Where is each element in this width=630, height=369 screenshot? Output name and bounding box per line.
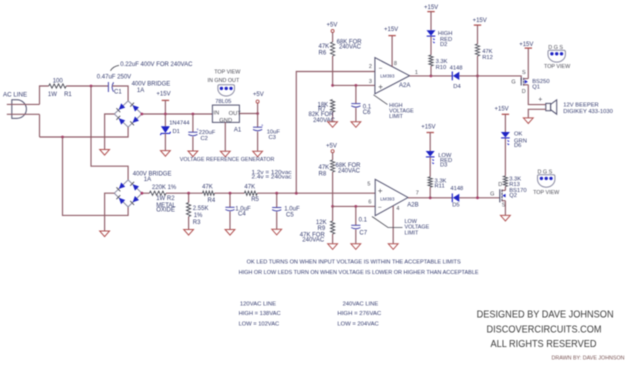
resistor R5 47K xyxy=(244,191,257,195)
svg-text:OK: OK xyxy=(514,132,523,138)
svg-text:IN: IN xyxy=(213,110,219,116)
wire GND pin xyxy=(224,122,226,151)
wire C1 to bridge1 top xyxy=(112,86,128,101)
svg-text:D5: D5 xyxy=(452,203,459,209)
op-amp comparator A2B LM393 xyxy=(375,179,408,215)
diode D5 4148 xyxy=(451,193,453,202)
ground xyxy=(523,118,533,124)
svg-text:D: D xyxy=(522,89,526,95)
svg-text:D3: D3 xyxy=(440,163,447,169)
junction R10 output node xyxy=(430,75,433,78)
transistor Q2 BS170 xyxy=(499,189,501,202)
junction C4 tap xyxy=(229,192,232,195)
capacitor C5 1.0uF xyxy=(276,193,278,207)
diode D4 4148 xyxy=(451,72,453,81)
svg-text:Q1: Q1 xyxy=(532,84,540,90)
svg-text:G: G xyxy=(490,192,494,198)
junction riser tap xyxy=(295,192,298,195)
svg-text:C2: C2 xyxy=(201,136,208,142)
svg-text:HIGH = 138VAC: HIGH = 138VAC xyxy=(239,311,281,317)
wire +unreg rail xyxy=(142,113,213,115)
svg-text:4: 4 xyxy=(396,206,399,212)
junction R3 tap xyxy=(187,192,190,195)
wire sense rail start xyxy=(142,192,150,194)
svg-text:LOW = 102VAC: LOW = 102VAC xyxy=(239,321,280,327)
capacitor C4 1.0uF xyxy=(229,193,231,207)
junction hot node xyxy=(90,85,93,88)
ground xyxy=(388,244,398,250)
leader for 0.22uF note xyxy=(110,65,119,71)
power +15V xyxy=(525,47,532,49)
resistor R2 220K xyxy=(149,191,166,195)
svg-text:400V BRIDGE: 400V BRIDGE xyxy=(133,171,172,177)
wire neutral drop xyxy=(39,114,41,137)
svg-text:4148: 4148 xyxy=(450,65,463,71)
junction neutral/bridge2 return xyxy=(61,136,64,139)
svg-text:D1: D1 xyxy=(173,129,180,135)
svg-text:47K: 47K xyxy=(244,184,255,190)
op-amp comparator A2A LM393 xyxy=(375,58,410,94)
svg-text:HIGH = 276VAC: HIGH = 276VAC xyxy=(337,311,381,317)
svg-text:1A: 1A xyxy=(144,177,151,183)
wire beeper return to ground xyxy=(528,109,546,118)
leader low limit xyxy=(372,217,403,228)
svg-text:220K 1%: 220K 1% xyxy=(152,185,177,191)
resistor R9 12K xyxy=(332,206,334,221)
wire hot riser to top rail xyxy=(40,86,49,104)
svg-text:LM393: LM393 xyxy=(380,74,395,79)
capacitor C3 10uF xyxy=(257,114,259,128)
wire R5 to pin5 xyxy=(257,192,375,194)
svg-text:DRAWN BY: DAVE JOHNSON: DRAWN BY: DAVE JOHNSON xyxy=(552,356,625,362)
BR2 diode bottom-right xyxy=(133,196,139,202)
svg-text:1A: 1A xyxy=(137,88,144,94)
svg-text:240VAC: 240VAC xyxy=(339,45,362,51)
wire ref node B to pin6 xyxy=(333,205,376,207)
svg-text:+: + xyxy=(378,82,383,91)
svg-text:DESIGNED BY DAVE JOHNSON: DESIGNED BY DAVE JOHNSON xyxy=(477,310,614,321)
svg-text:0.47uF 250V: 0.47uF 250V xyxy=(97,75,131,81)
ground xyxy=(100,231,110,237)
wire bridge1 minus to ground xyxy=(105,114,115,150)
junction R12 / Q1 gate node xyxy=(476,75,479,78)
wire bridge2 feed xyxy=(91,86,128,180)
svg-text:6: 6 xyxy=(368,200,371,206)
ground xyxy=(225,230,235,236)
svg-text:D: D xyxy=(498,182,502,188)
svg-text:TOP VIEW: TOP VIEW xyxy=(533,190,560,196)
svg-text:+5V: +5V xyxy=(327,22,338,28)
wire D5 to gate Q2 xyxy=(459,197,500,199)
svg-text:TOP VIEW: TOP VIEW xyxy=(214,70,241,76)
ground xyxy=(100,150,110,156)
svg-text:240VAC LINE: 240VAC LINE xyxy=(343,301,379,307)
svg-text:OK LED TURNS ON WHEN INPUT VOL: OK LED TURNS ON WHEN INPUT VOLTAGE IS WI… xyxy=(247,259,461,265)
BR1 diode top-left xyxy=(119,103,126,109)
svg-text:240VAC: 240VAC xyxy=(338,169,361,175)
ground xyxy=(328,122,338,128)
wire ref node to pin3 xyxy=(333,84,375,86)
ground xyxy=(501,215,511,221)
svg-text:VOLTAGE REFERENCE GENERATOR: VOLTAGE REFERENCE GENERATOR xyxy=(180,157,275,163)
svg-text:R3: R3 xyxy=(193,220,201,226)
svg-text:+5V: +5V xyxy=(326,143,337,149)
junction ref node A xyxy=(331,84,334,87)
svg-text:47K: 47K xyxy=(319,44,330,50)
junction R12 / Q2 gate node xyxy=(476,196,479,199)
svg-text:LOW = 204VAC: LOW = 204VAC xyxy=(337,321,378,327)
svg-text:HIGH OR LOW LEDS TURN ON WHEN: HIGH OR LOW LEDS TURN ON WHEN VOLTAGE IS… xyxy=(239,270,479,276)
bridge rectifier BR1 xyxy=(114,101,142,127)
svg-text:5: 5 xyxy=(367,182,370,188)
svg-text:C5: C5 xyxy=(286,213,294,219)
wire OUT to +5V xyxy=(239,113,257,115)
junction C7 tap xyxy=(354,205,357,208)
capacitor C6 0.1 xyxy=(355,85,357,103)
svg-text:A2B: A2B xyxy=(407,203,418,209)
capacitor C2 220uF xyxy=(192,114,194,132)
svg-text:G: G xyxy=(511,80,515,86)
wire D4 to gate Q1 xyxy=(459,76,521,81)
BR1 diode bottom-right xyxy=(133,117,140,123)
wire Q1 drain to beeper xyxy=(528,85,546,105)
BR2 diode bottom-left xyxy=(119,198,125,204)
transistor Q1 BS250 xyxy=(520,78,522,86)
junction bridge2 plus node xyxy=(141,192,144,195)
leader high limit xyxy=(374,95,388,105)
BR2 diode top-right xyxy=(133,184,139,190)
ground xyxy=(220,151,230,157)
resistor R1 100 xyxy=(49,84,66,88)
svg-text:7: 7 xyxy=(416,191,419,197)
svg-text:120VAC LINE: 120VAC LINE xyxy=(240,301,277,307)
svg-text:0.22uF 400V FOR 240VAC: 0.22uF 400V FOR 240VAC xyxy=(120,62,193,68)
junction +5V node xyxy=(256,112,259,115)
svg-text:R11: R11 xyxy=(435,184,445,190)
wire AC neutral prong xyxy=(7,113,40,115)
svg-text:12K: 12K xyxy=(316,220,327,226)
svg-text:1W R2: 1W R2 xyxy=(156,196,175,202)
svg-text:47K: 47K xyxy=(319,165,330,171)
junction C6 tap xyxy=(355,84,358,87)
resistor R6 47K xyxy=(331,42,335,56)
svg-text:+15V: +15V xyxy=(495,106,509,112)
svg-text:C3: C3 xyxy=(269,135,276,141)
BR1 diode top-right xyxy=(133,105,140,111)
wire pin4 to ground xyxy=(392,206,394,244)
svg-text:A1: A1 xyxy=(234,127,242,133)
resistor R13 3.3K xyxy=(504,187,506,191)
svg-text:+: + xyxy=(378,187,383,196)
AC plug J1 xyxy=(12,100,27,119)
svg-text:A2A: A2A xyxy=(399,83,410,89)
svg-text:C1: C1 xyxy=(114,90,122,96)
svg-text:LIMIT: LIMIT xyxy=(389,114,403,120)
svg-text:78L05: 78L05 xyxy=(215,99,231,105)
svg-text:+15V: +15V xyxy=(156,92,170,98)
svg-text:2.4v = 240vac: 2.4v = 240vac xyxy=(252,174,292,180)
capacitor C7 0.1 xyxy=(355,206,357,225)
svg-text:−: − xyxy=(379,65,383,72)
svg-text:1N4744: 1N4744 xyxy=(169,120,190,126)
svg-text:2.55K: 2.55K xyxy=(193,206,209,212)
ground xyxy=(161,151,171,157)
svg-text:C6: C6 xyxy=(363,110,371,116)
bridge rectifier BR2 xyxy=(114,180,142,207)
ground xyxy=(328,244,338,250)
junction D1 tap xyxy=(164,113,167,116)
svg-text:R12: R12 xyxy=(482,55,493,61)
ground xyxy=(351,122,361,128)
resistor R4 47K xyxy=(203,191,215,195)
resistor R7 18K xyxy=(331,100,335,113)
svg-text:D6: D6 xyxy=(514,143,521,149)
svg-text:LIMIT: LIMIT xyxy=(405,231,419,237)
svg-text:C7: C7 xyxy=(359,231,367,237)
svg-text:−: − xyxy=(378,204,382,211)
svg-text:OXIDE: OXIDE xyxy=(156,208,175,214)
ground xyxy=(184,230,194,236)
svg-text:47K: 47K xyxy=(202,184,213,190)
svg-text:TOP VIEW: TOP VIEW xyxy=(544,64,571,70)
svg-text:1.0uF: 1.0uF xyxy=(284,207,300,213)
ground xyxy=(272,229,282,235)
svg-text:AC LINE: AC LINE xyxy=(3,92,27,99)
BR1 diode bottom-left xyxy=(119,118,126,124)
svg-text:+: + xyxy=(538,97,542,104)
svg-text:0.1: 0.1 xyxy=(359,218,368,224)
wire AC hot prong xyxy=(7,103,40,105)
svg-text:2: 2 xyxy=(369,64,372,70)
resistor R10 3.3K xyxy=(430,36,432,55)
svg-text:+5V: +5V xyxy=(253,92,264,98)
svg-text:OUT: OUT xyxy=(229,111,242,117)
svg-text:1: 1 xyxy=(415,70,418,76)
svg-text:240VAC: 240VAC xyxy=(302,237,325,243)
svg-text:+15V: +15V xyxy=(519,42,533,48)
junction C2 tap xyxy=(192,113,195,116)
resistor R11 3.3K xyxy=(429,157,431,177)
junction bridge1 plus node xyxy=(141,113,144,116)
junction ref node B xyxy=(331,205,334,208)
resistor R8 47K xyxy=(331,160,335,172)
power +15V xyxy=(388,35,395,37)
ground xyxy=(188,151,198,157)
resistor R3 2.55K xyxy=(188,193,190,202)
svg-text:R13: R13 xyxy=(509,182,520,188)
wire A2A output xyxy=(410,75,453,77)
svg-text:IN GND OUT: IN GND OUT xyxy=(208,78,240,84)
svg-text:ALL RIGHTS RESERVED: ALL RIGHTS RESERVED xyxy=(491,339,597,350)
svg-text:100: 100 xyxy=(53,78,64,84)
svg-text:S: S xyxy=(522,70,526,76)
regulator A1 78L05 xyxy=(212,105,239,122)
svg-text:R6: R6 xyxy=(319,50,327,56)
wire pin8 to +15V xyxy=(391,36,393,67)
svg-text:C4: C4 xyxy=(238,212,246,218)
svg-text:DISCOVERCIRCUITS.COM: DISCOVERCIRCUITS.COM xyxy=(487,325,602,336)
ground xyxy=(253,151,263,157)
svg-text:1W: 1W xyxy=(48,92,57,98)
svg-text:R4: R4 xyxy=(208,198,216,204)
wire Q2 source to ground xyxy=(504,201,506,216)
BR2 diode top-left xyxy=(119,183,125,189)
svg-text:+15V: +15V xyxy=(384,27,398,33)
junction C5 tap xyxy=(275,192,278,195)
zener D1 1N4744 xyxy=(164,114,166,126)
svg-text:R8: R8 xyxy=(319,172,327,178)
svg-text:3: 3 xyxy=(369,79,372,85)
wire A2B output xyxy=(408,197,452,199)
wire neutral bottom rail xyxy=(40,127,129,137)
svg-text:4148: 4148 xyxy=(450,186,463,192)
wire R2-R4 xyxy=(166,192,203,194)
svg-text:D4: D4 xyxy=(453,84,461,90)
wire riser to pin2 xyxy=(296,72,375,194)
svg-text:+15V: +15V xyxy=(421,125,435,131)
svg-text:LM393: LM393 xyxy=(380,196,395,201)
wire R1 to C1 xyxy=(66,85,108,87)
junction R11 output node xyxy=(429,196,432,199)
svg-text:R10: R10 xyxy=(436,65,447,71)
svg-text:DIGIKEY 433-1030: DIGIKEY 433-1030 xyxy=(563,109,613,115)
svg-text:+15V: +15V xyxy=(473,18,487,24)
wire R4-R5 xyxy=(215,192,245,194)
svg-text:+: + xyxy=(261,123,264,128)
svg-text:+15V: +15V xyxy=(424,5,438,11)
svg-text:Q2: Q2 xyxy=(509,193,517,199)
svg-text:400V BRIDGE: 400V BRIDGE xyxy=(132,82,171,88)
svg-text:R5: R5 xyxy=(251,197,259,203)
wire Q1 source to +15V xyxy=(527,48,529,79)
capacitor C1 0.47uF xyxy=(107,82,109,92)
svg-text:8: 8 xyxy=(394,61,397,67)
LED D6 OK GRN xyxy=(501,132,510,138)
svg-text:R9: R9 xyxy=(318,226,326,232)
ground xyxy=(351,244,361,250)
wire bridge2 minus to ground xyxy=(105,193,115,231)
svg-text:1%: 1% xyxy=(194,213,203,219)
svg-text:R1: R1 xyxy=(64,92,72,98)
svg-text:12V BEEPER: 12V BEEPER xyxy=(563,102,598,108)
wire bridge2 return xyxy=(63,137,129,215)
svg-text:D2: D2 xyxy=(440,42,447,48)
